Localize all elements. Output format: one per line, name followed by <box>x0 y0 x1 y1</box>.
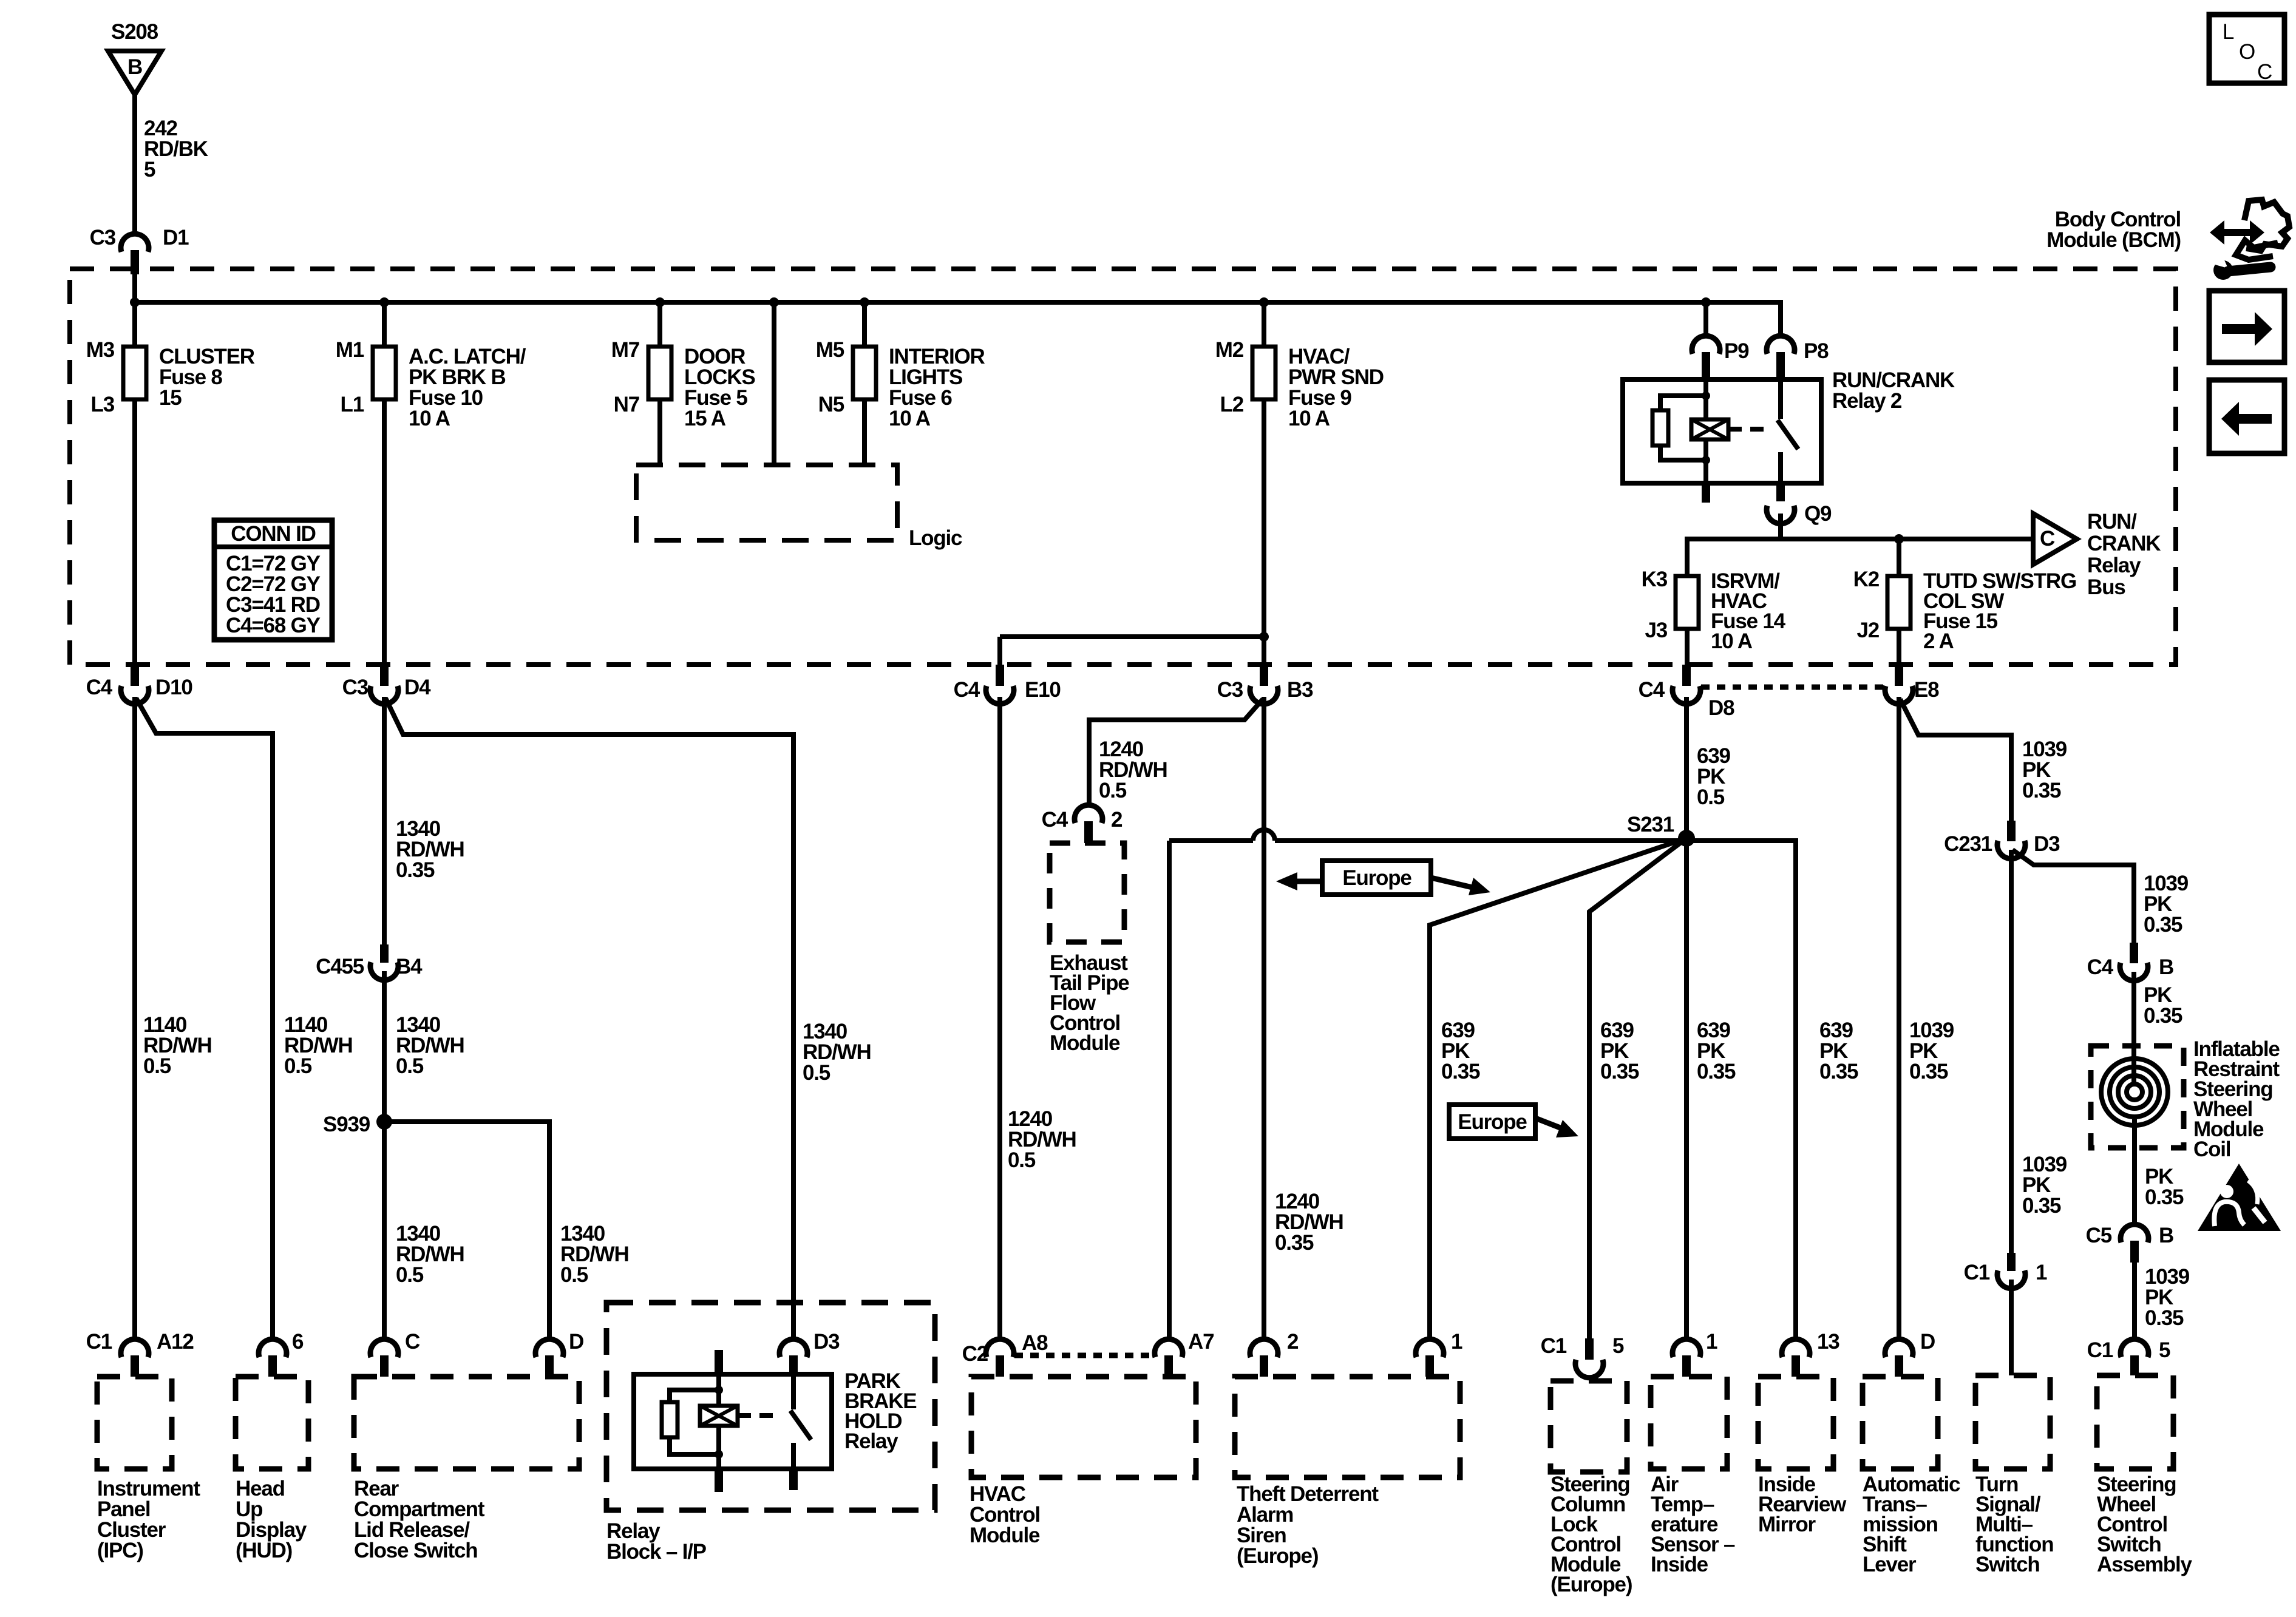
svg-text:(HUD): (HUD) <box>236 1539 292 1562</box>
svg-text:10 A: 10 A <box>1711 629 1753 653</box>
svg-text:CONN ID: CONN ID <box>231 522 315 546</box>
svg-text:(IPC): (IPC) <box>97 1539 143 1562</box>
svg-text:P8: P8 <box>1804 339 1829 363</box>
park relay output stub <box>789 1469 798 1490</box>
svg-text:0.5: 0.5 <box>1008 1148 1036 1172</box>
label Steering Column Lock Control Module (Europe) <box>1550 1473 1632 1596</box>
fuse 9 pin labels <box>1215 338 1244 416</box>
fuse 6 pin labels <box>816 338 844 416</box>
svg-text:Lever: Lever <box>1863 1553 1917 1576</box>
svg-text:0.5: 0.5 <box>396 1054 424 1078</box>
svg-text:0.35: 0.35 <box>1697 1060 1736 1083</box>
connector C1/1 turn labels <box>1964 1261 2047 1284</box>
wire bus to Fuse 6 <box>862 302 867 347</box>
wire bus end to P8 <box>1778 302 1781 336</box>
connector D3 label <box>813 1330 840 1354</box>
svg-text:C: C <box>2257 60 2272 84</box>
connector C1/5 lock <box>1575 1338 1603 1378</box>
junction bus logic drop <box>769 297 779 307</box>
svg-text:D3: D3 <box>813 1330 840 1354</box>
wire Fuse 10 to D4 <box>382 399 387 665</box>
wire turn to box <box>2009 1280 2014 1375</box>
connector C1/5 lock labels <box>1541 1334 1624 1358</box>
fuse 8 pin labels <box>86 338 115 416</box>
relay coil feed <box>1702 379 1710 419</box>
connector C4/D10 <box>121 665 149 704</box>
park relay coil bottom <box>715 1426 723 1492</box>
svg-text:Assembly: Assembly <box>2097 1553 2192 1576</box>
park relay coil winding <box>700 1406 738 1426</box>
label 1340 RD/WH 0.5 (B4) <box>396 1013 464 1078</box>
wire branch to E10 <box>1000 637 1264 665</box>
connector C5/B <box>2121 1224 2148 1263</box>
wire C5 to C1/5 <box>2132 1263 2137 1338</box>
svg-text:Bus: Bus <box>2087 575 2125 599</box>
component Automatic Transmission Shift Lever box <box>1863 1377 1938 1469</box>
fuse 15 pin labels <box>1853 568 1880 642</box>
fuse 14 pin labels <box>1642 568 1668 642</box>
label Logic <box>909 526 962 550</box>
label RUN/CRANK Relay Bus <box>2087 510 2161 599</box>
svg-text:C4: C4 <box>1639 678 1665 702</box>
svg-text:C1: C1 <box>1964 1261 1990 1284</box>
connector C4/E10 <box>986 665 1014 704</box>
connector C2/A8 labels <box>962 1331 1048 1366</box>
label 1340 RD/WH 0.5 (C) <box>396 1222 464 1287</box>
connector P9 <box>1692 336 1749 379</box>
connector C label <box>405 1330 420 1354</box>
svg-text:C3: C3 <box>342 676 369 699</box>
svg-text:C4: C4 <box>954 678 980 702</box>
svg-text:0.35: 0.35 <box>396 858 435 882</box>
connector C4/B labels <box>2087 955 2173 979</box>
connector C1/5 steering labels <box>2087 1338 2170 1362</box>
label 1240 RD/WH 0.5 (A8) <box>1008 1107 1076 1172</box>
relay RUN/CRANK Relay 2 box <box>1623 379 1821 483</box>
connector D label <box>569 1330 583 1354</box>
relay coil winding <box>1691 419 1728 439</box>
splice S208 label <box>111 20 158 44</box>
svg-text:A8: A8 <box>1022 1331 1048 1355</box>
connector E8 <box>1885 665 1913 704</box>
fuse 5 pin labels <box>611 338 639 416</box>
connector 2 <box>1250 1339 1278 1377</box>
svg-text:L: L <box>2223 20 2234 44</box>
junction E10 branch <box>1259 632 1269 642</box>
svg-text:(Europe): (Europe) <box>1550 1573 1632 1596</box>
wire bus to Fuse 8 <box>132 302 137 347</box>
BCM module dashed border <box>70 269 2176 665</box>
wire coil to C5/B <box>2132 1119 2137 1226</box>
junction K2 tap <box>1894 534 1904 544</box>
wire B3 branch to exhaust <box>1089 699 1263 805</box>
label 1039 PK 0.35 (coil) <box>2144 872 2189 937</box>
svg-text:S231: S231 <box>1627 813 1674 836</box>
svg-text:5: 5 <box>1612 1334 1624 1358</box>
label 639 PK 0.35 (mirror) <box>1819 1019 1858 1083</box>
svg-text:Logic: Logic <box>909 526 962 550</box>
label Exhaust Tail Pipe Flow Control Module <box>1050 951 1129 1055</box>
wire Fuse 14 to D8 <box>1685 629 1690 665</box>
connector C4/2 labels <box>1042 808 1123 832</box>
svg-text:M1: M1 <box>336 338 364 362</box>
svg-text:C: C <box>2040 527 2055 551</box>
svg-text:Europe: Europe <box>1458 1110 1527 1134</box>
svg-text:D10: D10 <box>155 676 192 699</box>
connector A7 label <box>1188 1330 1214 1354</box>
svg-text:J2: J2 <box>1856 619 1879 642</box>
wire Fuse 5 to Logic <box>657 399 662 465</box>
label 1140 RD/WH 0.5 (IPC) <box>143 1013 212 1078</box>
svg-text:C231: C231 <box>1944 832 1992 856</box>
CONN ID table <box>214 520 332 640</box>
fuse M2/L2 Fuse 9 <box>1252 347 1275 399</box>
svg-text:J3: J3 <box>1645 619 1667 642</box>
connector 2 label <box>1287 1330 1299 1354</box>
Relay Block I/P dashed box <box>606 1303 935 1510</box>
connector C4/2 <box>1075 805 1102 843</box>
connector C1/5 steering <box>2121 1339 2148 1375</box>
connector C1/A12 <box>121 1339 149 1377</box>
dotted link D8-E8 <box>1701 685 1884 690</box>
svg-text:Mirror: Mirror <box>1758 1513 1816 1536</box>
park relay coil pin stub <box>715 1350 723 1374</box>
svg-text:K3: K3 <box>1642 568 1668 591</box>
svg-text:6: 6 <box>292 1330 304 1354</box>
label HVAC/PWR SND Fuse 9 10 A <box>1288 345 1384 430</box>
svg-text:15: 15 <box>159 386 182 410</box>
svg-text:N7: N7 <box>614 393 639 416</box>
hand and wrench icon <box>2210 200 2289 280</box>
connector C2/A8 <box>986 1339 1014 1377</box>
label Rear Compartment Lid Release/Close Switch <box>354 1477 485 1562</box>
fuse M3/L3 Fuse 8 <box>123 347 146 399</box>
wire D1 to bus <box>132 272 137 302</box>
svg-text:M5: M5 <box>816 338 844 362</box>
label 242 RD/BK 5 <box>144 117 208 181</box>
label Automatic Transmission Shift Lever <box>1863 1473 1960 1576</box>
connector P8 <box>1767 336 1829 379</box>
svg-text:0.35: 0.35 <box>2144 1004 2182 1028</box>
splice S939 <box>323 1113 392 1136</box>
svg-text:Switch: Switch <box>1975 1553 2040 1576</box>
junction bus M2 <box>1259 297 1269 307</box>
svg-text:E8: E8 <box>1914 678 1939 702</box>
fuse M7/N7 Fuse 5 <box>648 347 671 399</box>
wire B to coil box <box>2131 972 2136 1086</box>
connector C1/A12 labels <box>86 1330 194 1354</box>
connector C5/B labels <box>2086 1224 2173 1247</box>
wire S231 right to mirror <box>1686 841 1796 1338</box>
component Steering Wheel Control Switch Assembly box <box>2097 1375 2173 1469</box>
label TUTD SW/STRG COL SW Fuse 15 2 A <box>1923 569 2076 653</box>
connector C4/D8 labels <box>1639 678 1734 720</box>
svg-text:L3: L3 <box>91 393 115 416</box>
Europe callout 1 <box>1276 861 1490 895</box>
relay PARK BRAKE HOLD box <box>634 1374 832 1469</box>
wire B3 to theft 2 <box>1262 697 1266 1338</box>
svg-text:C3: C3 <box>1217 678 1243 702</box>
label Turn Signal/Multifunction Switch <box>1975 1473 2053 1576</box>
wire bus to Fuse 10 <box>382 302 387 347</box>
label Theft Deterrent Alarm Siren (Europe) <box>1237 1482 1379 1568</box>
connector 1 label <box>1451 1330 1462 1354</box>
label PK 0.35 (above coil) <box>2144 983 2182 1028</box>
connector C3/D4 <box>370 665 398 704</box>
wire Q9 to relay bus <box>1778 514 1783 539</box>
svg-text:Module: Module <box>1050 1031 1120 1055</box>
svg-text:Europe: Europe <box>1342 866 1411 890</box>
connector C4/D10 labels <box>86 676 193 699</box>
svg-text:K2: K2 <box>1853 568 1880 591</box>
label CLUSTER Fuse 8 15 <box>159 345 255 410</box>
svg-text:0.35: 0.35 <box>1275 1231 1314 1255</box>
connector C4/E10 labels <box>954 678 1061 702</box>
connector C231/D3 <box>1997 821 2025 859</box>
connector D3 <box>779 1339 807 1374</box>
svg-text:D1: D1 <box>163 226 189 249</box>
svg-text:10 A: 10 A <box>889 407 931 430</box>
label 1039 PK 0.35 (trans) <box>1909 1019 1954 1083</box>
park relay switch <box>790 1374 811 1469</box>
connector C3/D4 labels <box>342 676 431 699</box>
wire S939 to C <box>382 1122 387 1338</box>
svg-text:M3: M3 <box>86 338 115 362</box>
connector C <box>370 1339 398 1377</box>
splice S231 <box>1627 813 1695 847</box>
svg-text:D4: D4 <box>404 676 431 699</box>
relay mechanical link <box>1728 427 1765 432</box>
wire E8 branch <box>1900 699 2011 821</box>
svg-text:0.35: 0.35 <box>2145 1306 2184 1330</box>
relay coil to ground pin <box>1702 439 1710 503</box>
navigation arrow right box <box>2209 291 2284 362</box>
connector C455/B4 <box>370 944 398 980</box>
component Inflatable Restraint coil box <box>2091 1046 2184 1148</box>
wire Fuse 8 to D10 <box>132 399 137 665</box>
wire Fuse 9 down <box>1262 399 1266 665</box>
svg-text:10 A: 10 A <box>1288 407 1330 430</box>
svg-text:B: B <box>2159 1224 2173 1247</box>
junction bus M7 <box>655 297 665 307</box>
label Inside Rearview Mirror <box>1758 1473 1847 1536</box>
wire run/crank relay bus <box>1687 539 2033 576</box>
wire 242 RD/BK from S208 <box>132 95 137 234</box>
svg-text:RUN/: RUN/ <box>2087 510 2137 534</box>
svg-text:C4=68 GY: C4=68 GY <box>226 614 321 637</box>
label A.C. LATCH/PK BRK B Fuse 10 <box>409 345 526 430</box>
splice S208 triangle B <box>108 51 161 95</box>
svg-text:B: B <box>127 55 142 79</box>
label HVAC Control Module <box>970 1482 1040 1547</box>
svg-text:Inside: Inside <box>1651 1553 1708 1576</box>
svg-text:O: O <box>2239 40 2255 64</box>
svg-text:B3: B3 <box>1287 678 1313 702</box>
Logic block dashed box <box>636 465 897 540</box>
svg-text:A12: A12 <box>157 1330 194 1354</box>
node C RUN/CRANK Relay Bus triangle <box>2033 514 2077 564</box>
park relay mechanical link <box>738 1413 775 1418</box>
relay switch <box>1778 379 1798 483</box>
component Exhaust Tail Pipe Flow Control Module box <box>1050 843 1124 942</box>
wire bus to Fuse 9 <box>1262 302 1266 347</box>
label Air Temperature Sensor - Inside <box>1651 1473 1735 1576</box>
fuse M5/N5 Fuse 6 <box>853 347 876 399</box>
connector D trans <box>1885 1339 1913 1377</box>
connector C4/D8 <box>1673 665 1700 704</box>
svg-text:D3: D3 <box>2034 832 2060 856</box>
connector C1/1 turn <box>1997 1253 2025 1289</box>
svg-text:L1: L1 <box>341 393 364 416</box>
wire S231 diagonal to column lock <box>1589 838 1686 1338</box>
label 1340 RD/WH 0.5 (D) <box>560 1222 629 1287</box>
label 1039 PK 0.35 (turn) <box>2022 1153 2067 1218</box>
connector E8 label <box>1914 678 1939 702</box>
wire D8 to S231 <box>1684 697 1689 838</box>
junction bus M3 <box>379 297 389 307</box>
label ISRVM/HVAC Fuse 14 10 A <box>1711 569 1786 653</box>
svg-text:1: 1 <box>1451 1330 1462 1354</box>
svg-text:C5: C5 <box>2086 1224 2112 1247</box>
svg-text:2: 2 <box>1287 1330 1299 1354</box>
svg-text:C4: C4 <box>86 676 113 699</box>
fuse 10 pin labels <box>336 338 364 416</box>
junction bus M5 <box>860 297 869 307</box>
svg-text:Module: Module <box>970 1524 1040 1547</box>
svg-text:Relay 2: Relay 2 <box>1832 389 1902 413</box>
label 639 PK 0.35 (theft) <box>1441 1019 1480 1083</box>
svg-text:0.35: 0.35 <box>2022 1194 2061 1218</box>
fuse K2/J2 Fuse 15 <box>1887 576 1911 629</box>
connector C4/B <box>2120 943 2148 981</box>
component Air Temperature Sensor box <box>1651 1377 1727 1469</box>
svg-text:Module (BCM): Module (BCM) <box>2046 228 2181 252</box>
svg-text:N5: N5 <box>818 393 844 416</box>
fuse K3/J3 Fuse 14 <box>1676 576 1699 629</box>
svg-text:0.5: 0.5 <box>560 1263 588 1287</box>
connector C3/D1 <box>121 234 149 274</box>
svg-text:5: 5 <box>144 158 155 181</box>
relay output stub <box>1776 483 1785 501</box>
label 1340 RD/WH 0.5 (relay) <box>803 1020 871 1085</box>
wire bus to Fuse 5 <box>657 302 662 347</box>
svg-text:0.35: 0.35 <box>1441 1060 1480 1083</box>
wire S939 to D <box>384 1122 549 1338</box>
LOC legend box <box>2209 15 2284 84</box>
svg-text:0.35: 0.35 <box>2144 913 2182 937</box>
svg-text:Q9: Q9 <box>1804 502 1832 526</box>
connector C3/D1 labels <box>90 226 189 249</box>
svg-text:D: D <box>1920 1330 1935 1354</box>
svg-text:C3: C3 <box>90 226 116 249</box>
svg-text:D8: D8 <box>1708 696 1734 720</box>
label Instrument Panel Cluster (IPC) <box>97 1477 200 1562</box>
svg-text:CRANK: CRANK <box>2087 532 2161 555</box>
connector D trans label <box>1920 1330 1935 1354</box>
svg-text:13: 13 <box>1817 1330 1839 1354</box>
connector 1 air <box>1673 1339 1700 1377</box>
svg-text:0.5: 0.5 <box>284 1054 312 1078</box>
park relay coil feed <box>715 1374 723 1406</box>
label RUN/CRANK Relay 2 <box>1832 368 1955 413</box>
svg-text:L2: L2 <box>1220 393 1244 416</box>
connector C231/D3 labels <box>1944 832 2060 856</box>
svg-text:0.5: 0.5 <box>803 1061 830 1085</box>
wire S231 down to air temp <box>1684 838 1689 1338</box>
wire Fuse 6 to Logic <box>862 399 867 465</box>
wire D10 branch to HUD <box>136 698 273 1338</box>
wire S231 diagonal to theft 1 <box>1430 838 1686 1338</box>
wire bus to Logic box <box>772 302 776 465</box>
svg-text:0.35: 0.35 <box>2022 779 2061 802</box>
label DOOR LOCKS Fuse 5 15 A <box>684 345 755 430</box>
connector C455/B4 labels <box>316 955 423 978</box>
svg-text:0.35: 0.35 <box>1819 1060 1858 1083</box>
svg-text:2: 2 <box>1111 808 1123 832</box>
connector 6 label <box>292 1330 304 1354</box>
connector 13 <box>1782 1339 1810 1377</box>
wire B4 to S939 <box>382 971 387 1122</box>
svg-text:D: D <box>569 1330 583 1354</box>
wire Fuse 15 to E8 <box>1897 629 1901 665</box>
svg-text:S208: S208 <box>111 20 158 44</box>
connector 13 label <box>1817 1330 1839 1354</box>
svg-text:P9: P9 <box>1724 339 1749 363</box>
label PK 0.35 (below coil) <box>2145 1165 2184 1209</box>
component Rear Compartment Lid Release box <box>354 1377 579 1469</box>
svg-text:Coil: Coil <box>2193 1137 2230 1161</box>
junction bus at D1 <box>130 297 140 307</box>
svg-text:0.5: 0.5 <box>1697 785 1725 809</box>
Europe callout 2 <box>1449 1105 1578 1139</box>
svg-text:10 A: 10 A <box>409 407 450 430</box>
svg-text:A7: A7 <box>1188 1330 1214 1354</box>
wire D4 down <box>382 697 387 944</box>
connector C3/B3 labels <box>1217 678 1313 702</box>
svg-text:Block – I/P: Block – I/P <box>606 1540 707 1564</box>
svg-text:E10: E10 <box>1025 678 1061 702</box>
component Head Up Display box <box>236 1377 308 1469</box>
wire E10 to A8 <box>997 697 1002 1338</box>
label 1039 PK 0.35 (E8) <box>2022 737 2067 802</box>
label 1340 RD/WH 0.35 <box>396 817 464 882</box>
label INTERIOR LIGHTS Fuse 6 10 A <box>889 345 985 430</box>
wire bus to P9 <box>1703 302 1708 336</box>
component Turn Signal Multifunction Switch box <box>1975 1375 2050 1469</box>
svg-text:M7: M7 <box>611 338 639 362</box>
svg-text:C1: C1 <box>1541 1334 1567 1358</box>
label 1039 PK 0.35 (steering) <box>2145 1265 2190 1330</box>
connector 1 air label <box>1706 1330 1717 1354</box>
connector D <box>535 1339 563 1377</box>
connector 1 <box>1416 1339 1444 1377</box>
wire S231 left to A7 with hop <box>1169 830 1686 1338</box>
svg-text:1: 1 <box>1706 1330 1717 1354</box>
navigation arrow left box <box>2209 380 2284 453</box>
component Steering Column Lock Control Module box <box>1550 1381 1627 1472</box>
svg-text:5: 5 <box>2159 1338 2170 1362</box>
connector 6 <box>259 1339 287 1377</box>
svg-text:C1: C1 <box>2087 1338 2113 1362</box>
component Instrument Panel Cluster box <box>97 1377 172 1469</box>
svg-text:Relay: Relay <box>844 1429 898 1453</box>
svg-text:0.5: 0.5 <box>143 1054 171 1078</box>
component Theft Deterrent Alarm Siren box <box>1235 1377 1460 1477</box>
svg-text:C4: C4 <box>2087 955 2114 979</box>
label Steering Wheel Control Switch Assembly <box>2097 1473 2192 1576</box>
wire main power bus <box>135 300 1781 305</box>
svg-text:0.5: 0.5 <box>1099 779 1127 802</box>
